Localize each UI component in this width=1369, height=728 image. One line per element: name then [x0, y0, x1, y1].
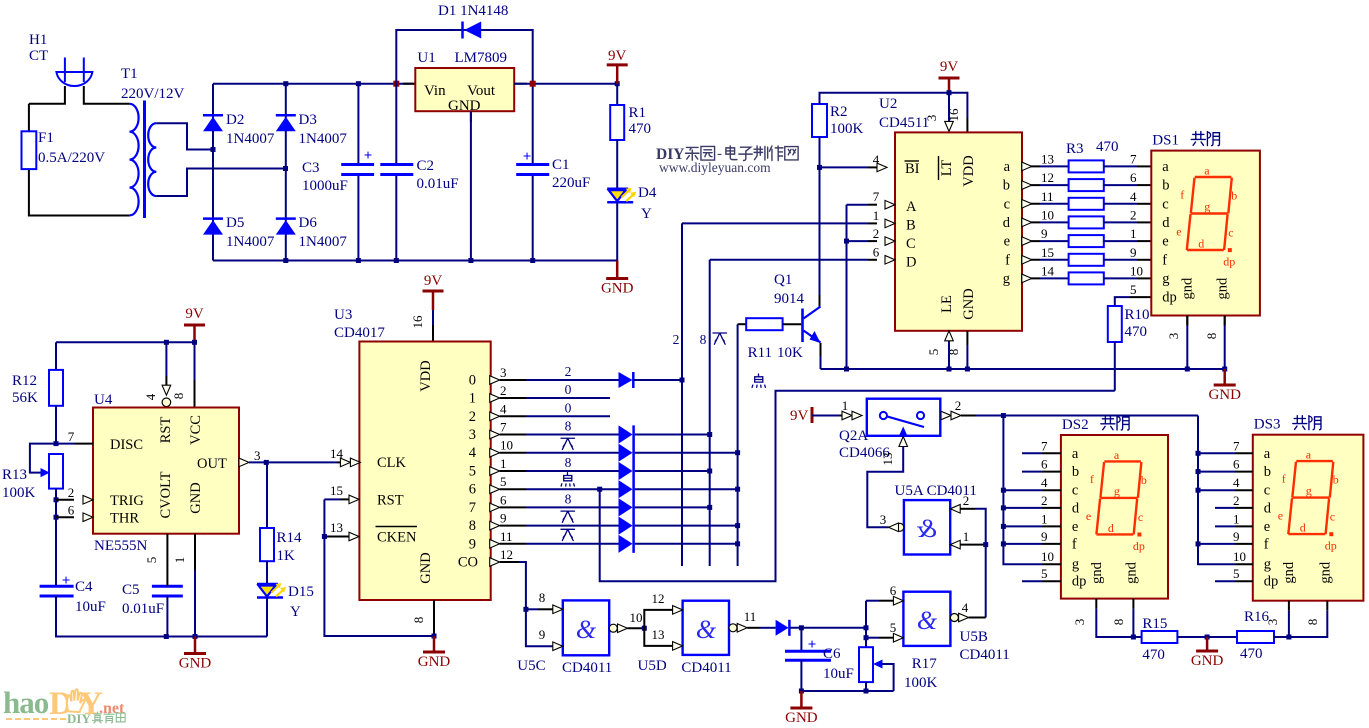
- svg-text:c: c: [1004, 196, 1010, 212]
- svg-text:5: 5: [500, 474, 507, 489]
- wire OUT pin3: [239, 458, 249, 467]
- wire THR pin6: [56, 516, 74, 518]
- svg-text:9: 9: [469, 536, 476, 552]
- resistor R11: [738, 323, 747, 325]
- wire diode to C6 node: [790, 627, 866, 629]
- transformer core: [143, 101, 146, 219]
- wire DS2 pin8: [1132, 609, 1134, 637]
- wire switch output bus: [1003, 415, 1198, 417]
- svg-text:CT: CT: [29, 48, 48, 64]
- nand U5D CD4011: [683, 601, 729, 655]
- svg-text:7: 7: [1041, 438, 1048, 453]
- svg-text:a: a: [1114, 448, 1120, 462]
- svg-text:U5C: U5C: [517, 658, 545, 674]
- svg-text:RST: RST: [377, 493, 404, 509]
- svg-text:R11: R11: [748, 345, 772, 361]
- svg-text:9V: 9V: [185, 306, 204, 322]
- svg-text:R3: R3: [1066, 141, 1084, 157]
- svg-text:100K: 100K: [830, 121, 864, 137]
- wire out1 stub: [500, 397, 526, 399]
- svg-text:f: f: [1282, 472, 1286, 486]
- svg-text:470: 470: [1240, 646, 1263, 662]
- svg-text:a: a: [1162, 159, 1169, 175]
- svg-text:1: 1: [1233, 511, 1240, 526]
- svg-text:2: 2: [469, 409, 476, 425]
- svg-text:3: 3: [1265, 619, 1280, 626]
- node C3 bottom: [356, 258, 361, 263]
- svg-text:g: g: [1072, 557, 1079, 573]
- wire DISC pin7: [56, 443, 75, 445]
- svg-text:e: e: [1278, 509, 1283, 523]
- capacitor C5: [152, 585, 183, 588]
- wire plug to loop: [29, 86, 65, 104]
- resistor R17: [859, 647, 873, 682]
- capacitor C3: [357, 84, 359, 165]
- wire D4 to GND: [616, 202, 618, 260]
- svg-text:b: b: [1072, 464, 1079, 480]
- svg-text:8: 8: [946, 349, 961, 356]
- svg-text:CLK: CLK: [377, 455, 407, 471]
- wire BI to Q1 collector: [819, 167, 821, 295]
- svg-text:d: d: [1108, 521, 1114, 535]
- svg-text:LT: LT: [939, 160, 955, 177]
- svg-text:R13: R13: [2, 467, 27, 483]
- svg-text:b: b: [1333, 473, 1339, 487]
- svg-text:R2: R2: [830, 104, 848, 120]
- nand U5B CD4011: [903, 592, 950, 646]
- svg-text:e: e: [1072, 519, 1078, 535]
- wire CVOLT pin5: [166, 534, 168, 587]
- node pin4 branch: [164, 340, 169, 345]
- display DS1: [1151, 151, 1260, 316]
- wire Q2A control pin13: [899, 437, 908, 447]
- wire C6 bottom: [800, 660, 802, 691]
- timer U4 NE555N: [93, 408, 239, 534]
- svg-text:16: 16: [410, 315, 425, 329]
- wire U4 top rail: [56, 341, 195, 343]
- wire row0 to bus2: [634, 379, 682, 381]
- svg-text:e: e: [1264, 519, 1270, 535]
- svg-text:2: 2: [673, 332, 680, 347]
- svg-text:5: 5: [1041, 566, 1048, 581]
- svg-text:VDD: VDD: [418, 360, 434, 391]
- node DS2 seg tap: [1001, 524, 1006, 529]
- svg-text:c: c: [1330, 510, 1335, 524]
- svg-text:Vin: Vin: [424, 83, 446, 99]
- node C5 gnd: [164, 634, 169, 639]
- wire R16 to DS3: [1274, 636, 1289, 638]
- node DISC junction: [54, 441, 59, 446]
- wire RST/CKEN to ground: [324, 499, 434, 636]
- svg-text:U1: U1: [417, 50, 435, 66]
- wire segment f: [1022, 259, 1040, 261]
- svg-text:Q1: Q1: [774, 272, 792, 288]
- LED D4: [607, 187, 628, 190]
- svg-text:470: 470: [1096, 139, 1119, 155]
- svg-text:10: 10: [630, 610, 643, 625]
- svg-text:H1: H1: [29, 32, 47, 48]
- svg-text:GND: GND: [785, 710, 818, 726]
- node R17 gnd: [864, 689, 869, 694]
- wire Q1 emitter: [820, 343, 822, 356]
- wire out2 stub: [500, 415, 526, 417]
- ground at U4: [194, 637, 197, 654]
- svg-text:d: d: [1264, 500, 1272, 516]
- node C6 gnd: [799, 689, 804, 694]
- 9V supply at U4: [184, 324, 205, 327]
- LED D15: [257, 583, 278, 586]
- svg-text:d: d: [1198, 237, 1204, 251]
- svg-text:9V: 9V: [608, 48, 627, 64]
- wire U5B input branch: [866, 600, 879, 602]
- wire out5: [500, 470, 526, 472]
- svg-text:D3: D3: [299, 112, 317, 128]
- svg-text:dp: dp: [1072, 574, 1087, 590]
- svg-text:0: 0: [565, 382, 572, 397]
- logo haoDIY.net: [3, 685, 125, 722]
- wire segment b: [1022, 184, 1040, 186]
- svg-text:f: f: [1005, 252, 1010, 268]
- wire GND pin8: [966, 331, 968, 345]
- node C3 top: [356, 81, 361, 86]
- wire LT pin3: [948, 93, 950, 122]
- svg-text:13: 13: [1041, 151, 1054, 166]
- svg-text:470: 470: [629, 121, 652, 137]
- wire secondary top tap: [156, 123, 213, 149]
- wire U5D out to diode: [747, 627, 760, 629]
- svg-text:10K: 10K: [777, 345, 803, 361]
- svg-text:4: 4: [469, 445, 477, 461]
- svg-text:D6: D6: [299, 215, 318, 231]
- nand U5C CD4011: [563, 600, 609, 655]
- wire U1 GND pin: [470, 111, 472, 260]
- svg-text:&: &: [916, 514, 937, 543]
- wire out0: [500, 379, 526, 381]
- svg-text:8: 8: [1111, 619, 1126, 626]
- svg-text:14: 14: [330, 446, 344, 461]
- svg-text:1N4007: 1N4007: [226, 234, 275, 250]
- resistor R14: [266, 462, 268, 528]
- wire DS1 pin3 down: [1186, 326, 1188, 370]
- svg-text:13: 13: [652, 627, 665, 642]
- svg-text:6: 6: [500, 492, 507, 507]
- wire C5 bottom: [166, 596, 168, 637]
- wire DS3 pin3: [1288, 611, 1290, 637]
- wire segment a: [1022, 165, 1040, 167]
- svg-text:U2: U2: [879, 96, 897, 112]
- svg-text:e: e: [1086, 509, 1091, 523]
- wire R15 to gnd: [1177, 636, 1237, 638]
- svg-text:D15: D15: [288, 584, 314, 600]
- node D6 bottom: [283, 258, 288, 263]
- transformer secondary: [148, 123, 156, 147]
- svg-text:U4: U4: [94, 392, 113, 408]
- node DS2 seg tap: [1001, 505, 1006, 510]
- svg-text:1: 1: [500, 456, 507, 471]
- svg-text:D5: D5: [226, 215, 244, 231]
- wire DS1 pin8 down: [1224, 326, 1226, 370]
- svg-text:9014: 9014: [774, 291, 805, 307]
- node R15 gnd: [1205, 635, 1210, 640]
- svg-text:C1: C1: [552, 157, 570, 173]
- bus net 8: [709, 260, 711, 566]
- svg-text:U5D: U5D: [638, 658, 667, 674]
- svg-text:2: 2: [1130, 207, 1137, 222]
- wire segment g: [1022, 277, 1040, 279]
- diode D7: [776, 620, 789, 636]
- svg-text:3: 3: [1166, 333, 1181, 340]
- svg-text:+: +: [523, 149, 532, 165]
- node D3 top: [283, 81, 288, 86]
- svg-text:3: 3: [1072, 619, 1087, 626]
- svg-text:b: b: [1003, 178, 1010, 194]
- node Vout (red): [530, 81, 536, 87]
- svg-text:g: g: [1306, 484, 1312, 498]
- svg-text:dp: dp: [1325, 539, 1337, 553]
- svg-text:12: 12: [500, 547, 513, 562]
- svg-text:R14: R14: [277, 530, 303, 546]
- svg-text:R1: R1: [629, 105, 647, 121]
- svg-text:9: 9: [500, 511, 507, 526]
- wire R2 bottom / BI: [819, 137, 821, 167]
- U5A input 2: [950, 505, 960, 514]
- wire U5C out to U5D: [628, 627, 645, 629]
- wire LE pin5: [948, 340, 950, 369]
- svg-text:9V: 9V: [940, 59, 959, 75]
- node LE gnd: [947, 367, 952, 372]
- wire D input: [710, 259, 868, 261]
- wire DS2 pin3: [1096, 609, 1141, 637]
- svg-text:D: D: [906, 255, 916, 271]
- svg-text:b: b: [1141, 473, 1147, 487]
- node U1 GND bottom: [468, 258, 473, 263]
- wire +12V top rail: [213, 83, 415, 85]
- Q2A output pin2: [941, 411, 951, 420]
- svg-text:8: 8: [700, 332, 707, 347]
- fuse F1: [22, 131, 37, 169]
- svg-text:9: 9: [1041, 529, 1048, 544]
- wire DS2 pin3: [1095, 599, 1097, 609]
- wire DS1 pin8: [1224, 316, 1226, 326]
- svg-text:RST: RST: [158, 417, 174, 444]
- svg-text:8: 8: [565, 419, 572, 434]
- wire U3 GND pin8: [433, 600, 435, 636]
- svg-text:d: d: [1072, 500, 1080, 516]
- diode D5: [203, 217, 223, 220]
- node R2-BI: [817, 165, 822, 170]
- svg-text:10: 10: [1041, 207, 1054, 222]
- U2 output arrows: [1022, 162, 1032, 171]
- wire bridge right column: [285, 84, 287, 261]
- ground at R15: [1206, 637, 1209, 651]
- svg-text:C3: C3: [302, 160, 320, 176]
- svg-text:9V: 9V: [424, 273, 443, 289]
- node row0-bus2: [680, 378, 685, 383]
- node DS2 pin8 join: [1131, 635, 1136, 640]
- resistor R10: [1108, 306, 1122, 342]
- svg-text:d: d: [1300, 521, 1306, 535]
- node secondary-D2: [211, 147, 216, 152]
- svg-text:0.5A/220V: 0.5A/220V: [38, 150, 105, 166]
- svg-text:BI: BI: [905, 161, 920, 177]
- svg-text:6: 6: [469, 482, 476, 498]
- node U3 gnd: [432, 634, 437, 639]
- svg-text:1: 1: [963, 529, 970, 544]
- svg-text:5: 5: [144, 557, 159, 564]
- node pin1 gnd: [193, 634, 198, 639]
- svg-text:14: 14: [1041, 263, 1055, 278]
- node dot-row pickoff: [597, 487, 602, 492]
- wire VDD pin16: [432, 310, 434, 325]
- svg-text:gnd: gnd: [1089, 561, 1105, 584]
- node A/C gnd: [844, 367, 849, 372]
- svg-text:TRIG: TRIG: [110, 493, 144, 509]
- svg-text:C6: C6: [823, 646, 841, 662]
- node TRIG junction: [54, 497, 59, 502]
- 9V supply at R1: [607, 63, 628, 66]
- node Vin (red): [393, 81, 399, 87]
- svg-text:a: a: [1204, 164, 1210, 178]
- svg-text:C: C: [906, 236, 916, 252]
- svg-text:2: 2: [1041, 493, 1048, 508]
- svg-text:9: 9: [1130, 245, 1137, 260]
- svg-text:10: 10: [1041, 549, 1054, 564]
- svg-text:A: A: [906, 199, 917, 215]
- svg-text:12: 12: [1041, 170, 1054, 185]
- svg-text:3: 3: [880, 512, 887, 527]
- svg-text:7: 7: [500, 420, 507, 435]
- wire U4 ground bus: [56, 636, 267, 638]
- wire bottom gnd bus: [801, 690, 893, 692]
- resistor R12: [55, 342, 57, 370]
- svg-text:2: 2: [963, 493, 970, 508]
- wire R14 to D15: [266, 561, 268, 584]
- svg-text:&: &: [576, 615, 597, 644]
- wire out4: [500, 452, 526, 454]
- svg-text:c: c: [1162, 196, 1168, 212]
- svg-text:VCC: VCC: [188, 415, 204, 445]
- diode D6: [276, 217, 296, 220]
- wire DS1 pin3: [1186, 316, 1188, 326]
- svg-text:DS2: DS2: [1062, 417, 1089, 433]
- wire GND pin1: [194, 534, 196, 570]
- op-amp U1 LM7809: [415, 68, 514, 111]
- svg-text:+: +: [808, 637, 817, 653]
- svg-text:1: 1: [1041, 511, 1048, 526]
- svg-text:e: e: [1162, 234, 1168, 250]
- svg-text:8: 8: [411, 617, 426, 624]
- svg-text:c: c: [1228, 226, 1233, 240]
- svg-text:8: 8: [539, 590, 546, 605]
- svg-text:R10: R10: [1125, 307, 1150, 323]
- svg-text:CD4011: CD4011: [562, 660, 612, 676]
- svg-text:3: 3: [500, 365, 507, 380]
- svg-text:OUT: OUT: [197, 456, 227, 472]
- node DS2 branch: [1001, 413, 1006, 418]
- svg-text:2: 2: [565, 364, 572, 379]
- svg-text:GND: GND: [418, 654, 451, 670]
- svg-text:4: 4: [500, 401, 507, 416]
- svg-text:9: 9: [1233, 529, 1240, 544]
- svg-text:GND: GND: [1208, 387, 1241, 403]
- display DS3: [1253, 435, 1364, 601]
- svg-text:100K: 100K: [2, 485, 36, 501]
- svg-text:8: 8: [1305, 619, 1320, 626]
- bus net 2: [681, 223, 683, 566]
- ground at DS1: [1223, 369, 1226, 385]
- U5A input 1: [950, 540, 960, 549]
- svg-text:a: a: [1264, 446, 1271, 462]
- svg-text:1000uF: 1000uF: [302, 178, 348, 194]
- svg-text:4: 4: [873, 152, 880, 167]
- svg-text:GND: GND: [1191, 653, 1224, 669]
- svg-text:gnd: gnd: [1317, 561, 1333, 584]
- svg-text:b: b: [1231, 189, 1237, 203]
- svg-text:GND: GND: [179, 656, 212, 672]
- svg-text:5: 5: [1130, 282, 1137, 297]
- svg-text:R15: R15: [1142, 616, 1167, 632]
- svg-text:c: c: [1264, 483, 1270, 499]
- svg-text:10uF: 10uF: [75, 599, 106, 615]
- node C6 top: [799, 625, 804, 630]
- svg-text:9: 9: [539, 627, 546, 642]
- svg-text:9V: 9V: [790, 408, 809, 424]
- svg-text:8: 8: [171, 393, 186, 400]
- svg-text:7: 7: [469, 500, 476, 516]
- svg-text:15: 15: [1041, 245, 1054, 260]
- svg-text:c: c: [1072, 483, 1078, 499]
- resistor R2: [812, 104, 827, 137]
- svg-text:g: g: [1264, 557, 1271, 573]
- wire DS2 pin8: [1132, 599, 1134, 609]
- resistor R1: [616, 84, 618, 105]
- svg-text:1: 1: [1130, 226, 1137, 241]
- node CKEN junction: [322, 534, 327, 539]
- wire out8: [500, 525, 526, 527]
- svg-text:F1: F1: [38, 130, 54, 146]
- node DS1 pin3: [1185, 367, 1190, 372]
- svg-text:5: 5: [926, 349, 941, 356]
- svg-text:gnd: gnd: [1215, 277, 1231, 300]
- svg-text:6: 6: [873, 245, 880, 260]
- diode D1: [464, 22, 481, 39]
- svg-text:THR: THR: [110, 511, 139, 527]
- node DS2 seg tap: [1001, 488, 1006, 493]
- wire segment c: [1022, 203, 1040, 205]
- svg-text:dp: dp: [1223, 255, 1235, 269]
- svg-text:1N4007: 1N4007: [299, 234, 348, 250]
- node CO split: [523, 607, 528, 612]
- wire out3: [500, 434, 526, 436]
- node DS3 seg tap: [1196, 541, 1201, 546]
- wires after diode stack: [635, 434, 710, 436]
- R17 wiper: [873, 660, 883, 669]
- node DS3 seg tap: [1196, 469, 1201, 474]
- svg-text:Vout: Vout: [467, 83, 496, 99]
- wire A/C vertical: [846, 205, 848, 369]
- wire segment e: [1022, 240, 1040, 242]
- svg-text:2: 2: [955, 398, 962, 413]
- diode D1 loop wire: [396, 30, 532, 84]
- svg-text:LM7809: LM7809: [455, 50, 508, 66]
- svg-text:11: 11: [1041, 189, 1054, 204]
- node pin8 branch: [192, 340, 197, 345]
- svg-text:CD4011: CD4011: [681, 660, 731, 676]
- svg-text:1N4007: 1N4007: [299, 131, 348, 147]
- svg-text:11: 11: [744, 609, 757, 624]
- svg-text:DIY: DIY: [67, 711, 91, 726]
- svg-text:3: 3: [469, 427, 476, 443]
